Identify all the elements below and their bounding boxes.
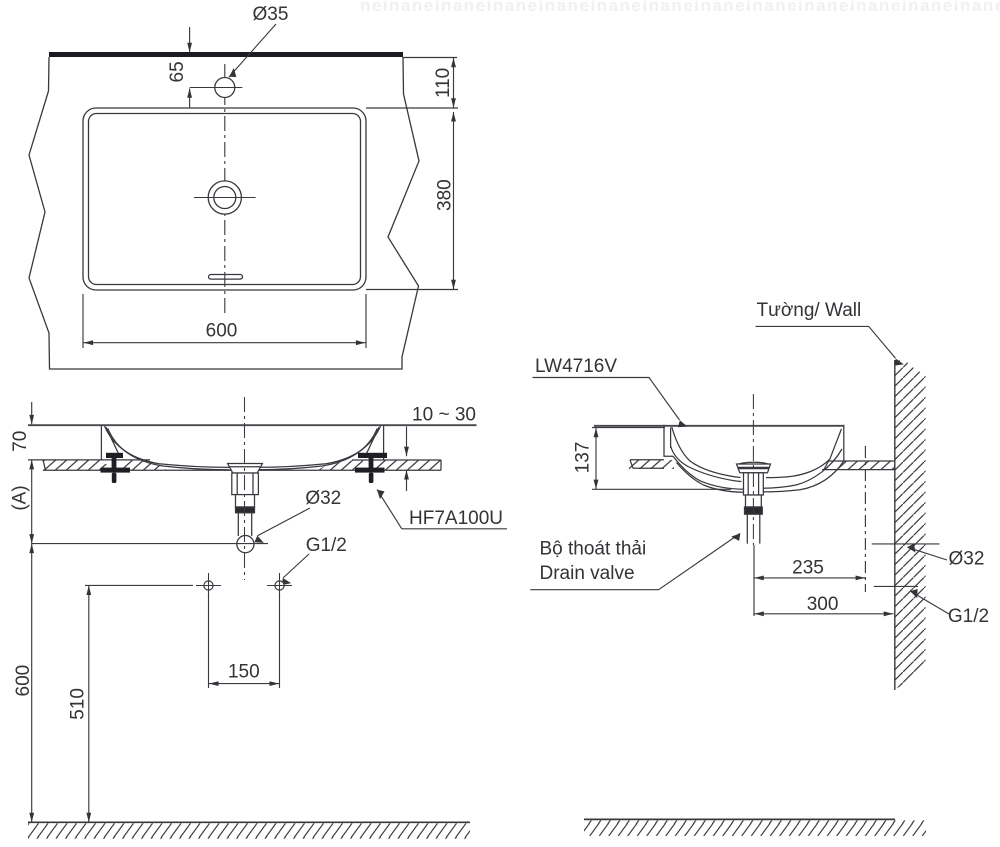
countertop top edge (front, left segment) (28, 459, 150, 461)
basin body white silhouette (front) (101, 425, 384, 471)
svg-text:Ø35: Ø35 (253, 4, 289, 25)
svg-text:G1/2: G1/2 (306, 535, 347, 556)
G1/2 hole left (front) (204, 581, 213, 590)
svg-text:(A): (A) (10, 485, 31, 510)
basin rear wall inner slant + interior curve (side) (766, 429, 841, 478)
drain body hex (front) (232, 473, 259, 495)
extension line at drain outlet level (32, 543, 268, 545)
svg-text:510: 510 (68, 688, 89, 720)
svg-text:150: 150 (228, 662, 260, 683)
floor line (side view) (584, 818, 895, 820)
basin right wall inner slant (front) (367, 427, 379, 453)
svg-text:HF7A100U: HF7A100U (409, 508, 503, 529)
leader LW4716V (533, 378, 680, 421)
basin rear wall outer + underside (side) (763, 425, 844, 492)
leader Bo thoat thai (530, 534, 740, 590)
svg-text:600: 600 (13, 665, 34, 697)
svg-text:137: 137 (573, 442, 594, 474)
basin shell lower curve left (front) (108, 429, 230, 470)
countertop right end (440, 460, 442, 470)
G1/2 hole right (front) (275, 581, 284, 590)
floor hatching (side view) (584, 820, 926, 836)
svg-text:600: 600 (206, 321, 238, 342)
counter hatch wedge right of basin shell (318, 461, 363, 471)
basin underside curve B1 (side) (673, 456, 744, 489)
G1/2 supply level line on wall (874, 585, 918, 587)
wall face line (894, 360, 896, 690)
drain hole inner circle (plan) (214, 187, 236, 209)
countertop edges left segment (side) (630, 459, 664, 461)
dim 150 extension lines (208, 594, 210, 688)
svg-text:Drain valve: Drain valve (540, 563, 635, 584)
dim 300 line (754, 613, 894, 615)
leader Ø32 right (908, 547, 948, 560)
dim 235 extension right (dash-dot) (864, 446, 866, 592)
drain thread band (front) (236, 507, 255, 513)
svg-text:neinaneinaneinaneinaneinaneina: neinaneinaneinaneinaneinaneinaneinaneina… (360, 0, 1000, 15)
drain flange (front) (228, 464, 263, 474)
countertop hatched band right segment (side) (829, 461, 895, 470)
svg-text:Tường/ Wall: Tường/ Wall (757, 300, 862, 321)
basin front wall inner line (side) (670, 428, 672, 449)
dimension 600 plan: extensions + dim line (82, 294, 84, 348)
svg-text:Ø32: Ø32 (305, 488, 341, 509)
drain thread band (side) (745, 507, 763, 514)
floor hatching (front view) (28, 823, 470, 839)
drain flange (side) (737, 464, 771, 473)
basin front wall outer line (side) (664, 425, 673, 457)
svg-text:235: 235 (792, 558, 824, 579)
basin rim top edge line (side) (594, 425, 844, 427)
10~30 dim vertical lines (406, 427, 408, 457)
svg-text:300: 300 (807, 594, 839, 615)
basin interior curve from left wall (front) (105, 426, 230, 467)
centerline side view (752, 394, 754, 545)
drain tail pipe (front) (238, 513, 251, 536)
basin rim outer rectangle (plan) (83, 108, 366, 290)
fixing clamp left: lower bar (101, 468, 131, 473)
countertop hatched band (front) (43, 460, 441, 470)
dim 235 line (754, 577, 865, 579)
basin rear shell middle curve (side) (763, 449, 842, 488)
centerline front view (244, 397, 246, 580)
leader HF7A100U (377, 490, 402, 529)
counter front edge thick bar (49, 52, 403, 57)
drain body facet lines (front) (237, 473, 253, 495)
arrowheads front view (29, 415, 34, 425)
leader Ø32 front (258, 508, 311, 536)
drain flange dome top (side) (739, 462, 768, 464)
arrowheads plan (187, 43, 192, 53)
wall hatched band (895, 360, 926, 690)
faucet hole horizontal centerline (190, 87, 243, 89)
dimension 380: extension + dim line (366, 289, 458, 291)
dim 235 extension left (753, 545, 755, 616)
counter outline with break lines (plan) (29, 57, 419, 369)
dim 150 line (209, 683, 280, 685)
fixing clamp left: stem (112, 458, 117, 472)
vertical centerline (plan) (224, 64, 226, 315)
leader Tuong/Wall (756, 326, 896, 358)
dimension 110: extension + dim line (403, 57, 457, 59)
svg-text:Bộ thoát thải: Bộ thoát thải (540, 539, 647, 560)
fixing clamp left: bolt (112, 473, 117, 483)
drain flange inner edge (front) (230, 466, 260, 468)
faucet hole circle (215, 78, 235, 98)
basin interior surface curve A1 (side) (672, 427, 741, 478)
svg-text:380: 380 (434, 179, 455, 211)
drain neck (front) (236, 495, 255, 507)
drain outlet circle Ø32 (front) (237, 536, 254, 553)
leader G1/2 front (283, 554, 309, 578)
drain tail pipe (side) (747, 514, 760, 543)
drain flange bold rim edge (side) (738, 467, 770, 469)
basin rim top edge line (front) (28, 424, 477, 426)
overflow slot (plan) (209, 275, 243, 280)
svg-text:10 ~ 30: 10 ~ 30 (412, 405, 476, 426)
fixing clamp right: top bar (358, 453, 387, 458)
basin right wall outer (front) (383, 425, 385, 460)
drain hole outer circle (plan) (208, 181, 241, 214)
left dim stack vertical line segments (31, 402, 33, 424)
countertop hatched band left segment (side) (629, 460, 674, 469)
basin underside curve B2 (side) (677, 463, 744, 493)
countertop edges right segment (side) (828, 460, 895, 462)
underline HF7A100U (402, 528, 507, 530)
drain body facet lines (side) (748, 473, 758, 495)
leader G1/2 right (911, 591, 950, 614)
basin left wall outer (front) (100, 425, 102, 460)
fixing clamp right: bolt (369, 473, 374, 483)
drain body hex (side) (744, 473, 764, 495)
svg-text:70: 70 (10, 431, 31, 452)
svg-text:65: 65 (167, 61, 188, 82)
svg-text:110: 110 (433, 68, 454, 98)
basin left wall inner slant (front) (106, 427, 118, 453)
basin shell lower curve right (front) (256, 429, 378, 470)
fixing clamp left: top bar (106, 453, 123, 458)
dimension 65: lines (189, 27, 191, 52)
countertop bottom edge (front) (43, 469, 441, 471)
Ø32 outlet level line on wall (872, 543, 940, 545)
svg-text:Ø32: Ø32 (949, 549, 985, 570)
arrowheads side view (594, 428, 599, 438)
extension line at G1/2 hole level (85, 584, 193, 586)
dim 137 extension lines (592, 427, 665, 429)
fixing clamp right: stem (369, 458, 374, 472)
floor line (front view) (28, 821, 470, 823)
drain horizontal centerline (194, 197, 256, 199)
basin shell inner curve A2 (side) (671, 446, 742, 482)
dim 137 line (595, 428, 597, 490)
counter hatch wedge left of basin shell (122, 461, 167, 471)
dim 510 vertical line (88, 585, 90, 822)
countertop top edge (front, right segment) (352, 459, 441, 461)
svg-text:G1/2: G1/2 (948, 606, 989, 627)
svg-text:LW4716V: LW4716V (535, 356, 617, 377)
basin interior curve from right wall (front) (256, 426, 381, 467)
countertop broken left end (43, 460, 46, 470)
basin rim inner rectangle (plan) (89, 114, 361, 285)
fixing clamp right: lower bar (355, 468, 385, 473)
leader line Ø35 (229, 24, 276, 77)
basin white silhouette (side) (664, 425, 844, 492)
drain neck (side) (746, 495, 762, 507)
